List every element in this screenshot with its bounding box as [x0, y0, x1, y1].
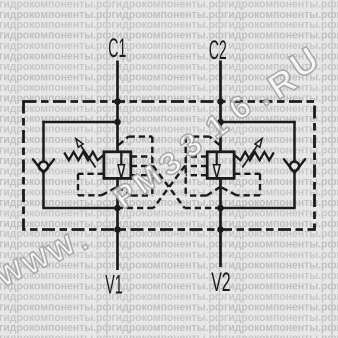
wire C2 vertical upper — [219, 61, 222, 153]
poppet line inside square 1 — [120, 152, 122, 165]
wire check valve return bottom horizontal — [221, 207, 296, 210]
pilot stub upper 2 — [186, 155, 208, 157]
wire check valve branch top horizontal — [221, 121, 296, 124]
adjustment arrow through spring 1 — [81, 146, 95, 167]
adjustment arrow through spring 2 — [242, 146, 256, 167]
wire check valve branch vertical lower — [42, 173, 45, 208]
wire check valve branch vertical upper — [293, 121, 296, 162]
wire V2 vertical lower — [219, 179, 222, 268]
pilot stub upper 1 — [131, 155, 153, 157]
spring chamber drain loop bottom 1 — [78, 194, 102, 196]
wire check valve branch vertical lower — [293, 173, 296, 208]
pilot diagonal down from main line 1 — [118, 187, 132, 196]
junction node 2 at envelope bottom — [217, 226, 224, 233]
crossover pilot horizontal to opposite port — [185, 207, 221, 209]
junction node 2 at check branch — [217, 119, 224, 126]
crossover pilot diagonal from valve 1 — [153, 166, 185, 209]
poppet line inside square 2 — [216, 152, 218, 165]
pilot top loop diagonal 2 — [210, 137, 220, 145]
pilot top loop diagonal 1 — [119, 137, 129, 145]
spring of valve 1 — [64, 152, 104, 160]
pilot stub middle 1 — [131, 165, 153, 167]
pilot stub middle 2 — [186, 165, 208, 167]
junction node 1 at envelope bottom — [114, 226, 121, 233]
counterbalance valve element square 2 — [207, 152, 234, 179]
wire C1 vertical upper — [116, 61, 119, 153]
spring chamber drain loop vertical 1 — [77, 174, 79, 196]
valve body envelope (dashed boundary) — [24, 102, 315, 230]
pilot bus vertical 2 — [184, 137, 186, 197]
pilot top loop horizontal 2 — [186, 135, 210, 137]
spring chamber drain loop bottom 2 — [237, 194, 261, 196]
pilot horizontal under square to bus 2 — [186, 194, 207, 196]
diagonal site watermark — [0, 39, 326, 293]
junction node 1 at pilot/return — [114, 205, 121, 212]
svg-text:V1: V1 — [105, 270, 123, 300]
svg-text:V2: V2 — [211, 267, 230, 297]
pilot stub lower 1 — [131, 174, 153, 176]
junction node 1 at envelope top — [114, 98, 121, 105]
pilot top loop horizontal 1 — [129, 135, 153, 137]
wire check valve branch top horizontal — [42, 121, 117, 124]
drain diagonal up to main line 2 — [221, 187, 237, 196]
check valve CV1 seat — [33, 159, 54, 173]
crossover pilot horizontal to opposite port — [118, 207, 154, 209]
junction node 2 at envelope top — [217, 98, 224, 105]
svg-text:гидрокомпоненты.рфгидрокомпоне: гидрокомпоненты.рфгидрокомпоненты.рфгидр… — [0, 333, 338, 338]
svg-text:C1: C1 — [108, 33, 126, 63]
spring of valve 2 — [234, 152, 274, 160]
pilot stub lower 2 — [186, 174, 208, 176]
junction node 1 at check branch — [114, 119, 121, 126]
poppet arrow (hollow) inside square 2 — [213, 165, 220, 178]
drain diagonal up to main line 1 — [102, 187, 118, 196]
pilot horizontal under square to bus 1 — [132, 194, 153, 196]
junction node 2 at pilot/return — [217, 205, 224, 212]
wire check valve branch vertical upper — [42, 121, 45, 162]
spring chamber drain loop vertical 2 — [259, 174, 261, 196]
spring chamber drain loop top 1 — [78, 173, 104, 175]
wire check valve return bottom horizontal — [42, 207, 117, 210]
check valve CV2 ball — [290, 162, 299, 171]
crossover pilot diagonal from valve 2 — [154, 166, 186, 209]
check valve CV1 ball — [39, 162, 48, 171]
poppet arrow (hollow) inside square 1 — [118, 165, 125, 178]
check valve CV2 seat — [284, 159, 305, 173]
pilot bus vertical 1 — [151, 137, 153, 197]
spring chamber drain loop top 2 — [234, 173, 260, 175]
svg-text:C2: C2 — [209, 35, 227, 65]
pilot diagonal down from main line 2 — [207, 187, 221, 196]
wire V1 vertical lower — [116, 179, 119, 271]
counterbalance valve element square 1 — [104, 152, 131, 179]
